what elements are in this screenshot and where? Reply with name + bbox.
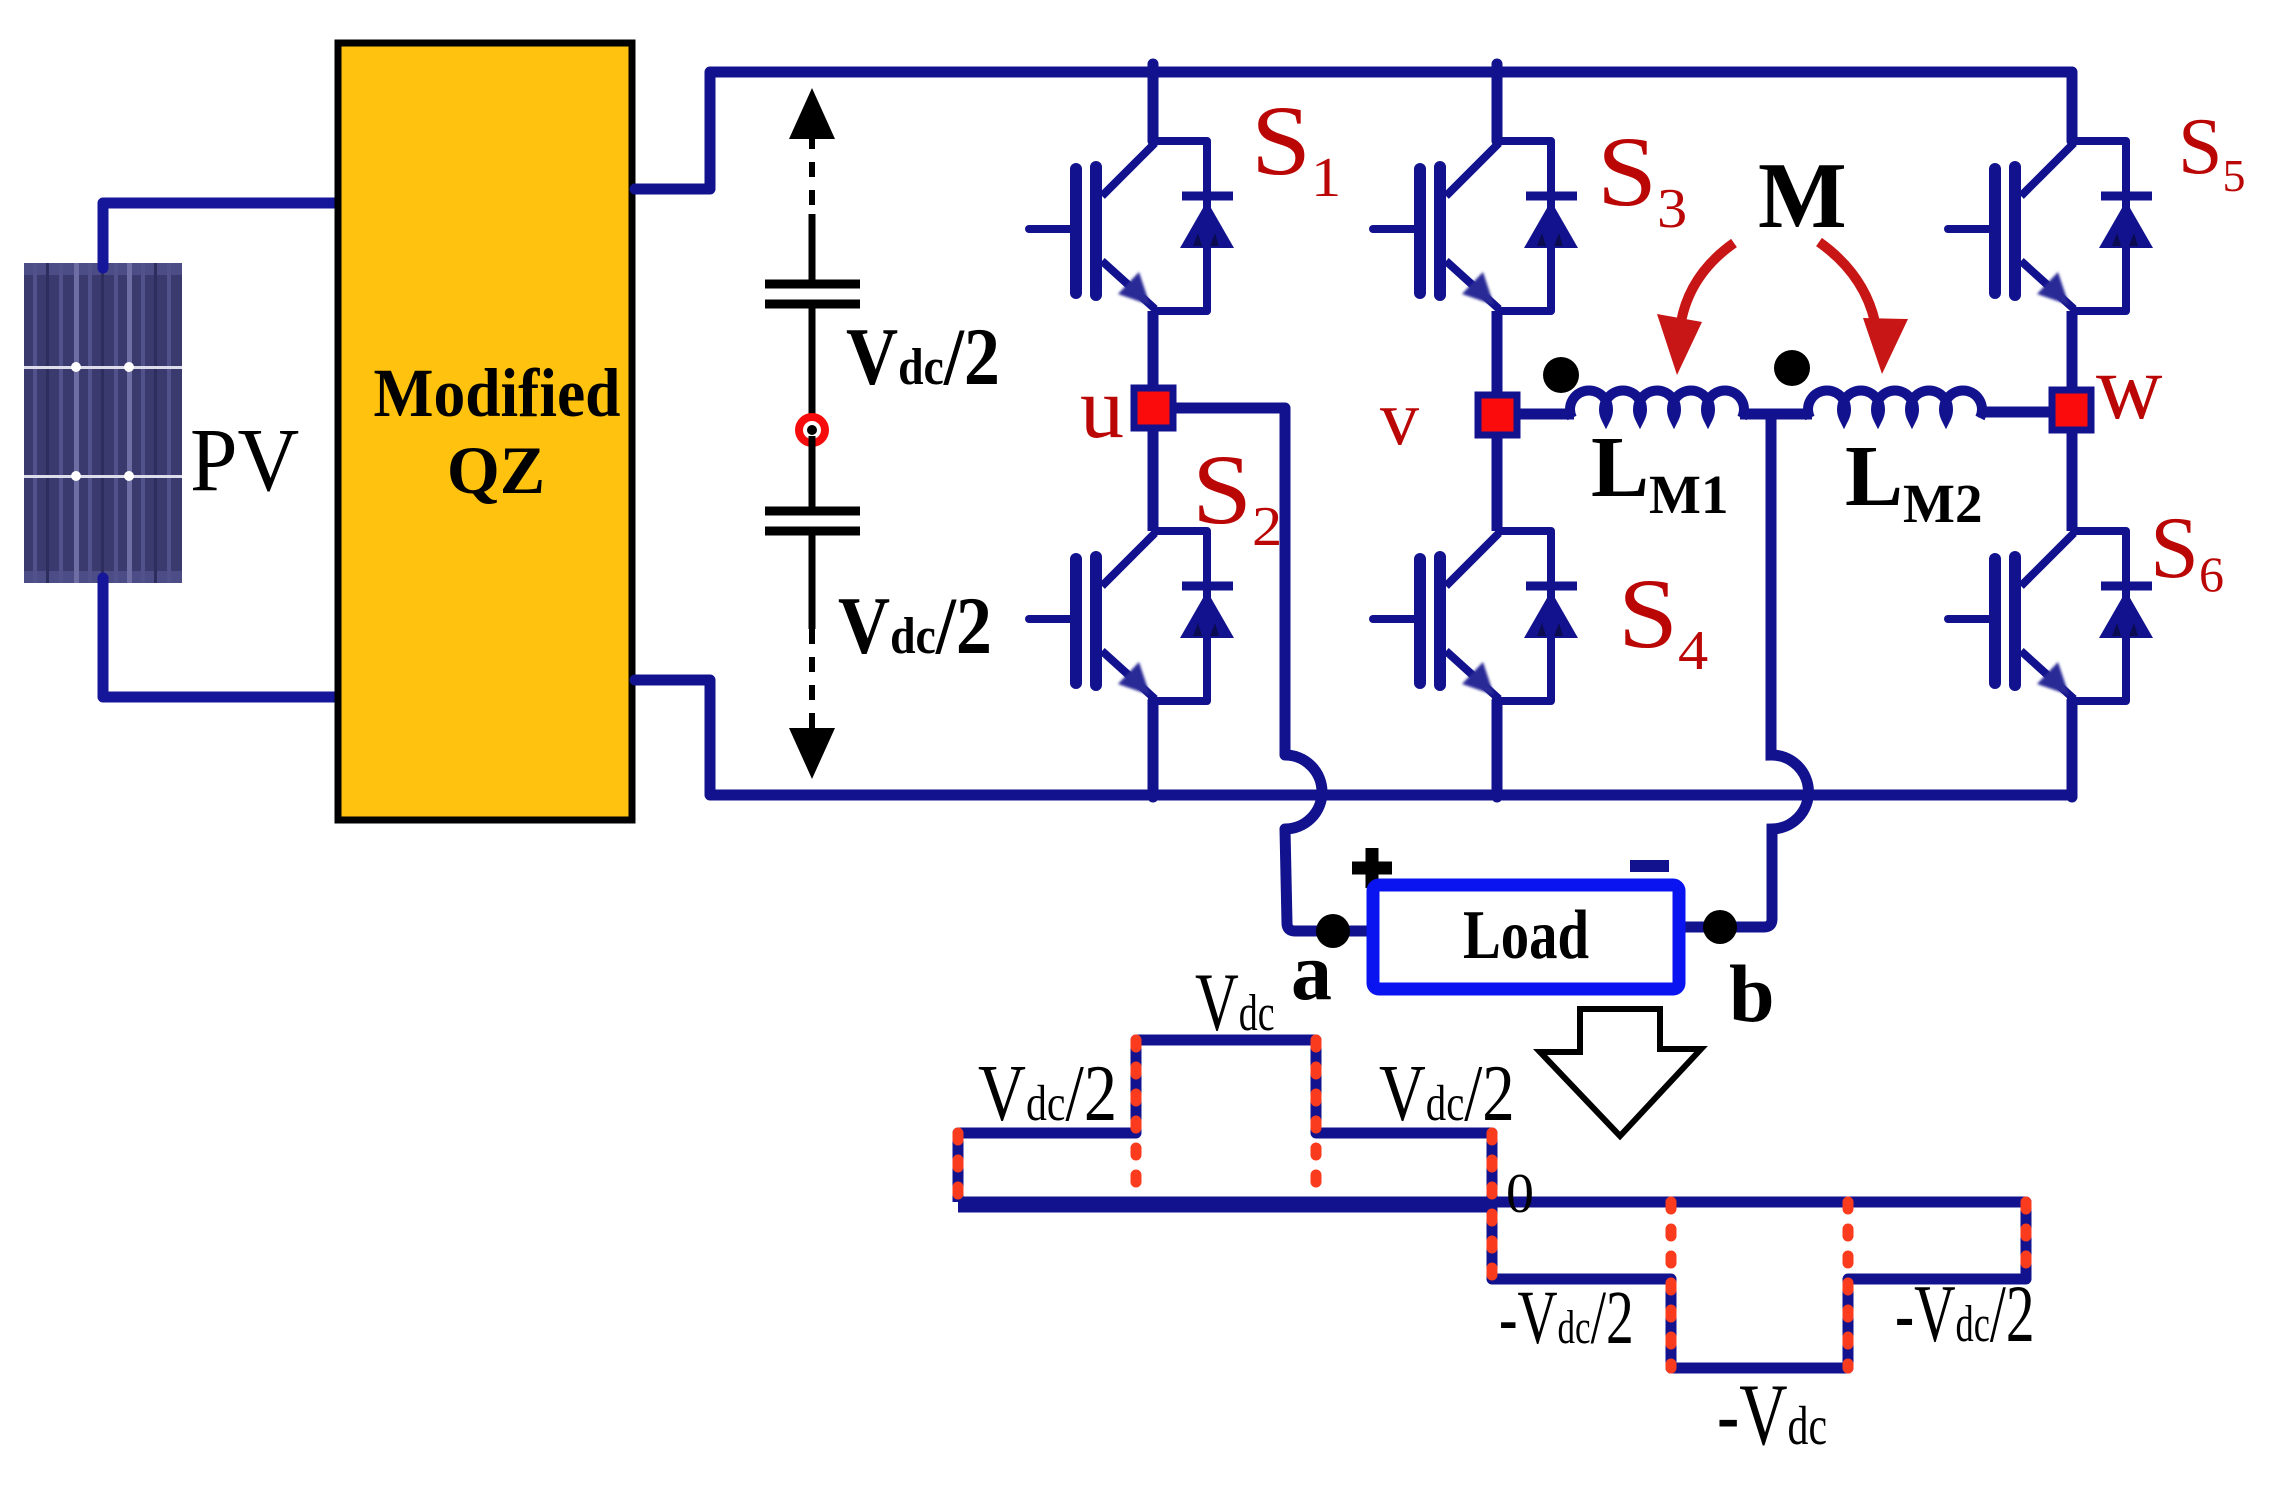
svg-text:Load: Load (1463, 895, 1589, 973)
load box (1373, 885, 1679, 989)
wire S4 emitter to bottom rail (1492, 701, 1503, 797)
wire inductor LM2 to node w (1978, 407, 2050, 418)
svg-text:a: a (1291, 926, 1332, 1017)
label S5 (2178, 103, 2246, 201)
dc-link dashed arrow down (789, 629, 835, 779)
PV label (190, 410, 299, 509)
wire S5 emitter to node w (2067, 311, 2078, 390)
label Vdc/2 lower (838, 580, 992, 671)
coupling arrow left (1657, 243, 1734, 375)
label u (1080, 360, 1124, 457)
waveform dashed transition x=1848 (1843, 1202, 1854, 1368)
waveform label -Vdc/2 left (1499, 1277, 1634, 1360)
label LM1 (1591, 418, 1728, 525)
coupling arrow right (1819, 242, 1908, 374)
inductor LM1 (1570, 391, 1744, 418)
label v (1380, 374, 1419, 461)
waveform dashed transition x=1492 (1487, 1133, 1498, 1279)
wire node w to S6 collector (2067, 432, 2078, 531)
wire node v to inductor (1519, 409, 1574, 420)
svg-text:PV: PV (190, 410, 299, 509)
wire S1 emitter to node u (1148, 311, 1159, 385)
capacitor C2 (765, 436, 860, 629)
waveform label -Vdc/2 right (1895, 1269, 2035, 1359)
svg-text:S5: S5 (2178, 103, 2246, 201)
wire node u to load (with hop over rail) (1176, 408, 1373, 931)
igbt S3 (1373, 141, 1578, 311)
waveform label 0 (1506, 1163, 1534, 1225)
igbt S5 (1948, 141, 2153, 311)
Modified QZ converter block (338, 43, 632, 820)
big hollow arrow down (1540, 1009, 1701, 1136)
waveform label Vdc/2 mid (1379, 1048, 1515, 1137)
wire PV top (103, 203, 339, 268)
waveform trace (958, 1040, 2026, 1368)
label S2 (1192, 434, 1282, 558)
svg-text:M: M (1758, 144, 1847, 248)
wire S6 emitter to bottom rail (2067, 701, 2078, 797)
igbt S2 (1029, 531, 1234, 701)
label S1 (1251, 85, 1341, 209)
waveform dashed transition x=958 (953, 1133, 964, 1202)
PV panel (24, 263, 182, 583)
node a (1316, 914, 1350, 948)
wire inductor midpoint (1679, 414, 1812, 927)
waveform label -Vdc (1717, 1365, 1827, 1463)
svg-text:S4: S4 (1618, 558, 1708, 682)
wire QZ top stub and top DC rail (635, 72, 2072, 189)
svg-text:S3: S3 (1597, 116, 1687, 240)
wire S2 emitter to bottom rail (1148, 701, 1159, 797)
svg-text:Vdc: Vdc (1195, 956, 1275, 1049)
node u square (1134, 388, 1173, 428)
svg-text:LM2: LM2 (1845, 427, 1982, 534)
wire node u to S2 collector (1148, 431, 1159, 531)
wire QZ bottom stub and bottom DC rail (635, 680, 2072, 795)
svg-text:b: b (1729, 948, 1775, 1039)
dot mark LM2 (1774, 350, 1810, 386)
label b (1729, 948, 1775, 1039)
waveform dashed transition x=1671 (1666, 1202, 1677, 1368)
node b (1703, 910, 1737, 944)
svg-text:S1: S1 (1251, 85, 1341, 209)
igbt S1 (1029, 141, 1234, 311)
waveform label Vdc (1195, 956, 1275, 1049)
label LM2 (1845, 427, 1982, 534)
svg-text:QZ: QZ (447, 432, 545, 508)
svg-text:-Vdc/2: -Vdc/2 (1499, 1277, 1634, 1360)
label M (1758, 144, 1847, 248)
svg-text:0: 0 (1506, 1163, 1534, 1225)
waveform zero axis overlap segment (958, 1204, 1492, 1213)
dc-link dashed arrow up (789, 88, 835, 218)
dot mark LM1 (1543, 357, 1579, 393)
wire S3 emitter to node v (1492, 311, 1503, 394)
dc-link midpoint node (799, 417, 825, 443)
wire S1 collector stub (1148, 64, 1159, 141)
inductor LM2 (1808, 391, 1982, 418)
igbt S6 (1948, 531, 2153, 701)
svg-text:S6: S6 (2150, 500, 2224, 602)
svg-text:Vdc/2: Vdc/2 (978, 1049, 1117, 1139)
label S4 (1618, 558, 1708, 682)
waveform dashed transition x=1316 (1311, 1040, 1322, 1202)
svg-text:v: v (1380, 374, 1419, 461)
load minus sign (1630, 860, 1669, 872)
capacitor C1 (765, 214, 860, 424)
label S3 (1597, 116, 1687, 240)
label S6 (2150, 500, 2224, 602)
waveform label Vdc/2 left (978, 1049, 1117, 1139)
svg-text:-Vdc: -Vdc (1717, 1365, 1827, 1463)
waveform dashed transition x=1136 (1131, 1040, 1142, 1202)
node v square (1478, 395, 1517, 435)
svg-text:LM1: LM1 (1591, 418, 1728, 525)
waveform dashed transition x=2026 (2021, 1202, 2032, 1279)
igbt S4 (1373, 531, 1578, 701)
label Vdc/2 upper (846, 311, 1000, 402)
wire node v to S4 collector (1492, 437, 1503, 531)
wire S3 collector stub (1492, 64, 1503, 141)
svg-text:u: u (1080, 360, 1124, 457)
svg-text:w: w (2096, 336, 2163, 438)
svg-text:S2: S2 (1192, 434, 1282, 558)
label a (1291, 926, 1332, 1017)
wire PV bottom (103, 578, 339, 697)
node w square (2052, 390, 2091, 430)
svg-text:Vdc/2: Vdc/2 (838, 580, 992, 671)
label w (2096, 336, 2163, 438)
svg-text:Modified: Modified (374, 355, 621, 431)
load plus sign (1352, 848, 1392, 888)
svg-text:Vdc/2: Vdc/2 (846, 311, 1000, 402)
svg-text:Vdc/2: Vdc/2 (1379, 1048, 1515, 1137)
